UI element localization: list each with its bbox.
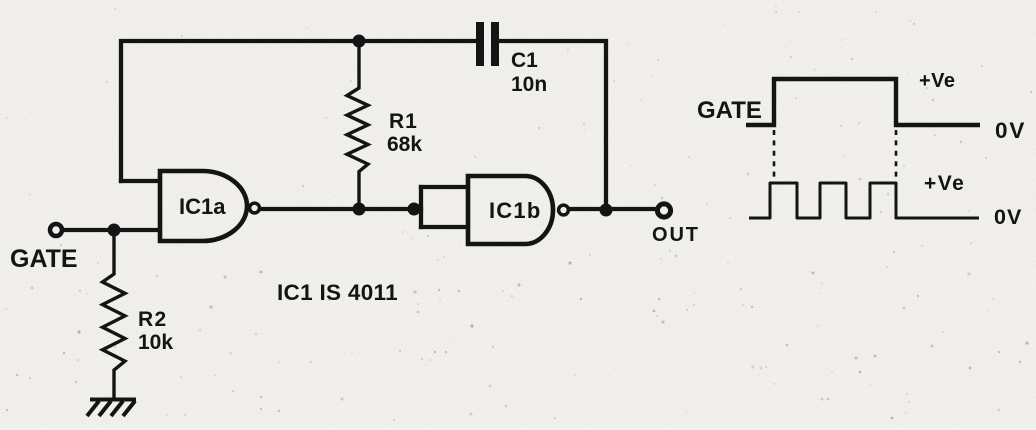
wire: C1 right plate to right corner and down to output node <box>499 41 606 209</box>
svg-text:68k: 68k <box>387 133 422 156</box>
svg-text:0V: 0V <box>994 205 1022 229</box>
svg-text:IC1 IS 4011: IC1 IS 4011 <box>277 280 398 305</box>
svg-text:OUT: OUT <box>652 224 700 246</box>
timing diagram: gate waveform <box>746 79 980 125</box>
NAND gate IC1b <box>468 176 568 244</box>
terminal GATE <box>50 224 62 236</box>
wire: GATE input to IC1a bottom input <box>63 228 158 232</box>
node: output junction <box>600 204 613 217</box>
timing diagram: dashed line right <box>895 130 898 177</box>
resistor R1 <box>347 41 368 209</box>
svg-text:+Ve: +Ve <box>919 70 956 92</box>
svg-text:C1: C1 <box>511 49 538 72</box>
svg-text:GATE: GATE <box>10 245 78 273</box>
node: R1 bottom junction <box>353 203 366 216</box>
NAND gate IC1a <box>160 171 259 241</box>
svg-text:+Ve: +Ve <box>924 172 965 195</box>
svg-text:10n: 10n <box>511 73 547 96</box>
svg-text:0V: 0V <box>995 118 1026 143</box>
svg-text:10k: 10k <box>138 331 173 354</box>
wire: IC1b output to OUT terminal <box>570 207 655 211</box>
wire: IC1a output to IC1b input node <box>262 207 421 211</box>
terminal OUT <box>657 204 670 217</box>
timing diagram: dashed line left <box>773 130 776 177</box>
wire: IC1a top input feedback entry <box>121 179 158 183</box>
svg-text:IC1b: IC1b <box>489 198 541 223</box>
svg-text:R1: R1 <box>389 110 418 133</box>
node: IC1b input junction <box>408 203 421 216</box>
svg-text:IC1a: IC1a <box>179 194 226 219</box>
svg-text:GATE: GATE <box>697 97 762 124</box>
wire: top feedback horizontal (left segment to C1 left plate) <box>121 41 476 181</box>
capacitor C1 <box>480 22 495 66</box>
node: GATE/R2 junction <box>108 224 121 237</box>
timing diagram: oscillator waveform <box>749 183 979 218</box>
node: R1 top junction <box>353 35 366 48</box>
svg-text:R2: R2 <box>138 308 167 331</box>
ground <box>87 400 136 417</box>
wire: IC1b tied-input stub rectangle <box>419 187 423 227</box>
resistor R2 <box>103 230 126 398</box>
